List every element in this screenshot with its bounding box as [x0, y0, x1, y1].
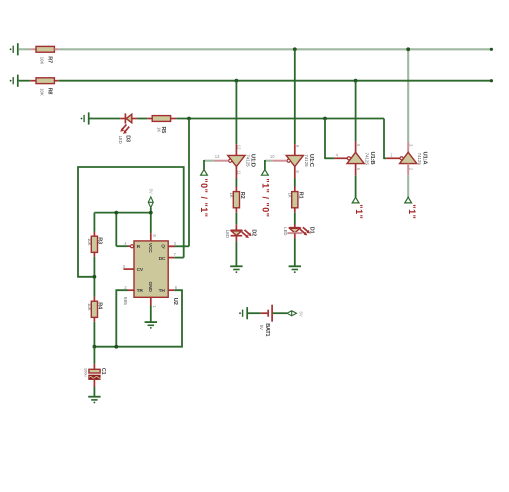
svg-text:DC: DC	[159, 256, 166, 262]
svg-text:Q: Q	[161, 243, 165, 249]
svg-text:6: 6	[356, 168, 361, 171]
svg-text:1: 1	[390, 152, 393, 157]
svg-text:GND: GND	[147, 282, 153, 293]
svg-text:5: 5	[356, 144, 361, 147]
svg-text:R8: R8	[46, 88, 52, 95]
svg-text:10K: 10K	[40, 88, 45, 96]
svg-text:R5: R5	[160, 127, 166, 134]
svg-text:8: 8	[152, 234, 157, 237]
svg-text:R7: R7	[46, 56, 52, 63]
svg-text:BAT1: BAT1	[264, 323, 270, 336]
svg-text:1K: 1K	[288, 193, 293, 198]
svg-text:R3: R3	[97, 237, 103, 244]
svg-text:"1" / "0": "1" / "0"	[260, 178, 270, 217]
svg-text:LED: LED	[283, 227, 288, 235]
svg-text:100u: 100u	[84, 368, 89, 377]
svg-text:3: 3	[174, 241, 177, 246]
svg-text:VCC: VCC	[147, 243, 153, 253]
svg-text:74125: 74125	[304, 154, 309, 167]
svg-text:U1:D: U1:D	[250, 154, 256, 167]
svg-text:74125: 74125	[245, 154, 250, 167]
svg-text:R1: R1	[298, 192, 304, 199]
svg-text:10K: 10K	[87, 238, 92, 246]
svg-text:12: 12	[237, 145, 242, 150]
svg-text:U2: U2	[172, 298, 178, 306]
svg-text:4: 4	[124, 241, 127, 246]
svg-text:2: 2	[124, 285, 127, 290]
svg-text:TR: TR	[137, 288, 144, 294]
svg-text:CV: CV	[137, 267, 144, 273]
svg-text:LED: LED	[118, 136, 123, 144]
svg-text:TH: TH	[159, 288, 166, 294]
svg-text:555: 555	[122, 297, 128, 305]
svg-text:5V: 5V	[148, 189, 153, 194]
svg-text:U1:B: U1:B	[369, 152, 375, 165]
svg-text:U1:C: U1:C	[308, 154, 314, 168]
svg-text:"1": "1"	[354, 204, 364, 219]
svg-text:"1": "1"	[407, 204, 417, 219]
svg-text:6: 6	[175, 285, 178, 290]
svg-text:5V: 5V	[259, 325, 264, 330]
svg-text:R4: R4	[97, 302, 103, 310]
svg-text:11: 11	[237, 170, 242, 175]
svg-text:4: 4	[336, 152, 339, 157]
svg-text:C1: C1	[100, 368, 106, 375]
svg-text:D1: D1	[308, 227, 314, 234]
svg-text:13: 13	[215, 154, 220, 159]
svg-text:U1:A: U1:A	[422, 152, 428, 166]
svg-text:LED: LED	[225, 230, 230, 238]
svg-text:5V: 5V	[298, 312, 303, 317]
svg-text:74125: 74125	[365, 153, 370, 166]
svg-text:2: 2	[409, 168, 414, 171]
svg-text:74125: 74125	[417, 153, 422, 166]
svg-text:10K: 10K	[87, 303, 92, 311]
svg-text:10K: 10K	[40, 57, 45, 65]
svg-text:"0" / "1": "0" / "1"	[199, 178, 209, 217]
svg-text:1: 1	[152, 306, 157, 309]
svg-text:R2: R2	[239, 192, 245, 199]
svg-text:8: 8	[295, 170, 300, 173]
svg-text:D3: D3	[124, 135, 130, 142]
svg-text:7: 7	[174, 252, 177, 257]
svg-text:1K: 1K	[229, 193, 234, 198]
svg-text:D2: D2	[250, 229, 256, 236]
svg-text:10: 10	[270, 154, 275, 159]
svg-text:9: 9	[295, 145, 300, 148]
svg-text:5: 5	[123, 264, 126, 269]
